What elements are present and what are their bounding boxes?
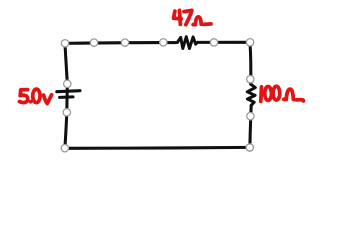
battery V1 long plate bbox=[57, 91, 80, 92]
label 100ohm : digit 1 bbox=[259, 87, 264, 102]
resistor R2 100ohm zigzag bbox=[247, 84, 255, 105]
wire bottom bbox=[65, 146, 250, 150]
node bottom-left corner bbox=[61, 145, 68, 152]
node left above battery bbox=[64, 80, 71, 87]
wire top-right segment bbox=[198, 41, 251, 44]
wire top-left segment bbox=[65, 41, 174, 45]
wire right lower bbox=[250, 105, 251, 147]
label 47ohm : digit 4 bbox=[174, 11, 182, 19]
node top-right corner bbox=[246, 39, 253, 46]
node right below R2 bbox=[247, 113, 254, 120]
node bottom-right corner bbox=[246, 144, 253, 151]
wire left lower bbox=[65, 112, 67, 148]
wire right upper bbox=[248, 42, 252, 84]
label 5.0v : digit 5 bbox=[20, 90, 28, 103]
label 100ohm : omega bbox=[284, 89, 304, 101]
battery V1 short plate bbox=[60, 95, 73, 99]
node left below battery bbox=[63, 109, 70, 116]
label 5.0v : decimal point bbox=[29, 100, 33, 104]
node top 4 bbox=[160, 39, 167, 46]
node top 2 bbox=[90, 39, 97, 46]
node right above R2 bbox=[247, 76, 254, 83]
node top 5 bbox=[210, 39, 217, 46]
label 100ohm : digit 0 bbox=[265, 87, 272, 101]
wire through battery bbox=[65, 84, 69, 112]
node top-left corner bbox=[61, 40, 68, 47]
label 47ohm : omega bbox=[193, 17, 211, 25]
wire left upper bbox=[65, 43, 67, 84]
resistor R1 47ohm zigzag bbox=[174, 37, 198, 49]
label 5.0v : digit 0 bbox=[33, 89, 40, 102]
label 47ohm : digit 7 bbox=[184, 10, 192, 24]
node top 3 bbox=[121, 39, 128, 46]
label 5.0v : letter v bbox=[44, 95, 52, 104]
label 100ohm : digit 0 second bbox=[273, 86, 280, 100]
